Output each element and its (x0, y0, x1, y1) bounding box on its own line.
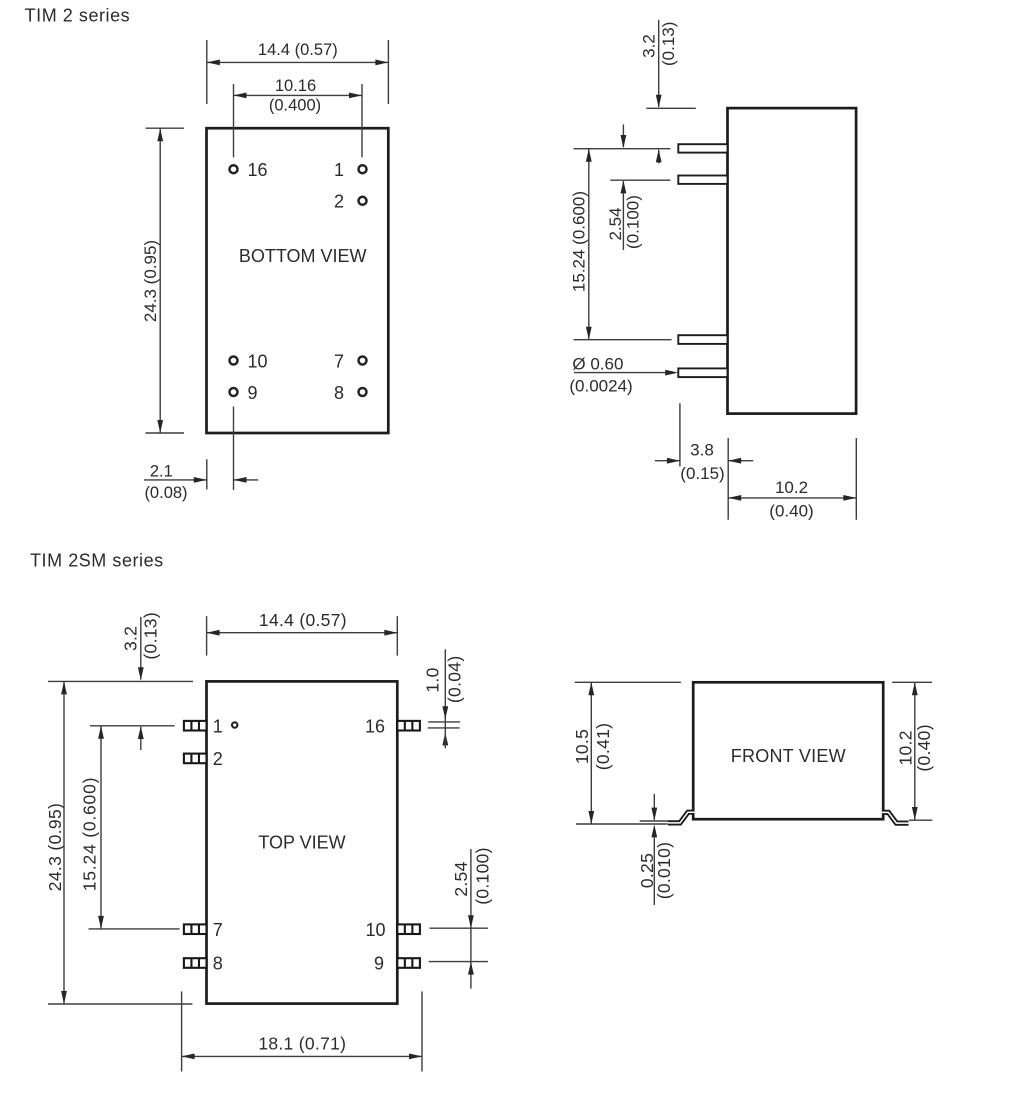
svg-text:TIM 2 series: TIM 2 series (25, 5, 131, 25)
svg-text:(0.41): (0.41) (593, 723, 613, 771)
dimension 24.3 (0.95) body length (141, 128, 184, 433)
svg-text:(0.010): (0.010) (654, 842, 674, 900)
svg-text:(0.04): (0.04) (444, 656, 464, 704)
pin 1 (bottom view hole) (359, 165, 367, 173)
dimension 14.4 (0.57) body width top view (207, 610, 398, 656)
svg-text:BOTTOM VIEW: BOTTOM VIEW (239, 246, 367, 266)
dimension 2.54 (0.100) pin pitch top view (429, 847, 493, 988)
svg-text:14.4 (0.57): 14.4 (0.57) (258, 41, 338, 59)
svg-text:(0.13): (0.13) (659, 22, 678, 66)
svg-text:16: 16 (248, 160, 268, 180)
svg-text:2: 2 (334, 192, 344, 212)
svg-text:15.24 (0.600): 15.24 (0.600) (80, 777, 100, 892)
pin row 2 (side view lead) (678, 176, 727, 184)
svg-text:8: 8 (334, 383, 344, 403)
svg-text:Ø 0.60: Ø 0.60 (572, 354, 623, 373)
svg-text:3.2: 3.2 (121, 626, 141, 651)
svg-text:7: 7 (213, 920, 223, 940)
svg-text:7: 7 (334, 351, 344, 371)
svg-text:FRONT VIEW: FRONT VIEW (731, 746, 846, 766)
dimension 14.4 (0.57) body width (207, 40, 389, 104)
svg-text:2.54: 2.54 (606, 207, 625, 240)
dimension 2.54 (0.100) pin pitch side view (606, 124, 671, 250)
svg-text:10.2: 10.2 (895, 730, 915, 765)
svg-text:15.24 (0.600): 15.24 (0.600) (569, 191, 588, 292)
svg-text:10.2: 10.2 (775, 478, 808, 497)
pin 16 (bottom view hole) (230, 165, 238, 173)
dimension 3.2 (0.13) top edge to pin 1 (121, 612, 161, 750)
svg-text:(0.40): (0.40) (914, 724, 934, 772)
dimension 3.8 (0.15) pin length (655, 403, 753, 520)
SMD pin 9 (397, 958, 420, 968)
svg-text:24.3 (0.95): 24.3 (0.95) (141, 240, 160, 322)
pin row 1 (side view lead) (678, 144, 727, 152)
pin row 8 (side view lead) (678, 368, 727, 377)
svg-text:18.1 (0.71): 18.1 (0.71) (258, 1034, 346, 1054)
svg-text:24.3 (0.95): 24.3 (0.95) (45, 803, 65, 892)
pin 10 (bottom view hole) (230, 357, 238, 365)
package body outline (bottom view) (207, 128, 389, 433)
svg-text:16: 16 (365, 716, 385, 736)
SMD pin 7 (184, 924, 207, 934)
svg-text:TOP VIEW: TOP VIEW (258, 833, 345, 853)
svg-text:10.5: 10.5 (572, 729, 592, 764)
SMD pin 2 (184, 754, 207, 764)
dimension 2.1 (0.08) pin offset (144, 407, 258, 502)
package body outline (top view) (207, 681, 398, 1003)
dimension 18.1 (0.71) overall width with pins (182, 991, 422, 1071)
SMD pin 8 (184, 958, 207, 968)
SMD pin 10 (397, 924, 420, 934)
pin 8 (bottom view hole) (359, 388, 367, 396)
dimension 15.24 (0.600) pin row span top view (80, 726, 180, 929)
dimension 0.25 (0.010) lead thickness (637, 794, 674, 905)
svg-text:(0.15): (0.15) (680, 464, 724, 483)
dimension 1.0 (0.04) pin thickness (422, 649, 464, 748)
svg-text:9: 9 (374, 954, 384, 974)
svg-text:(0.08): (0.08) (144, 484, 187, 502)
dimension 15.24 (0.600) pin row span side view (569, 149, 671, 340)
svg-text:(0.100): (0.100) (472, 847, 492, 905)
pin row 7 (side view lead) (678, 335, 727, 344)
dimension 10.16 (0.400) pin span (234, 77, 363, 158)
svg-text:(0.0024): (0.0024) (569, 377, 632, 396)
svg-text:3.8: 3.8 (690, 441, 714, 460)
svg-text:10.16: 10.16 (275, 77, 316, 95)
right gull-wing lead (882, 812, 909, 823)
pin 9 (bottom view hole) (230, 388, 238, 396)
pin 7 (bottom view hole) (359, 357, 367, 365)
svg-text:3.2: 3.2 (639, 34, 658, 58)
svg-text:TIM 2SM series: TIM 2SM series (30, 551, 164, 571)
svg-text:9: 9 (248, 383, 258, 403)
svg-text:1: 1 (334, 160, 344, 180)
svg-text:1: 1 (213, 716, 223, 736)
dimension 24.3 (0.95) body length top view (45, 681, 193, 1004)
svg-text:(0.100): (0.100) (624, 195, 643, 249)
svg-text:14.4 (0.57): 14.4 (0.57) (259, 610, 347, 630)
left gull-wing lead (668, 812, 694, 823)
leader pin diameter 0.60 (0.0024) (569, 354, 678, 395)
svg-text:(0.40): (0.40) (769, 501, 813, 520)
package body outline (front view) (693, 682, 883, 819)
package body outline (side view) (728, 108, 857, 414)
svg-text:2: 2 (213, 749, 223, 769)
dimension 10.2 (0.40) body depth (728, 438, 856, 520)
dimension 3.2 (0.13) standoff top to pin 1 (639, 20, 696, 164)
dimension 10.5 (0.41) overall height (572, 682, 681, 824)
svg-text:10: 10 (248, 351, 268, 371)
pin 1 indicator dot (232, 722, 237, 727)
svg-text:8: 8 (213, 954, 223, 974)
pin 2 (bottom view hole) (359, 197, 367, 205)
svg-text:10: 10 (365, 920, 385, 940)
svg-text:(0.400): (0.400) (269, 97, 321, 115)
svg-text:2.54: 2.54 (451, 861, 471, 896)
svg-text:1.0: 1.0 (422, 667, 442, 692)
svg-text:(0.13): (0.13) (141, 612, 161, 660)
SMD pin 16 (397, 721, 420, 731)
SMD pin 1 (184, 721, 207, 731)
dimension 10.2 (0.40) body height front view (892, 682, 934, 820)
svg-text:2.1: 2.1 (150, 462, 173, 480)
